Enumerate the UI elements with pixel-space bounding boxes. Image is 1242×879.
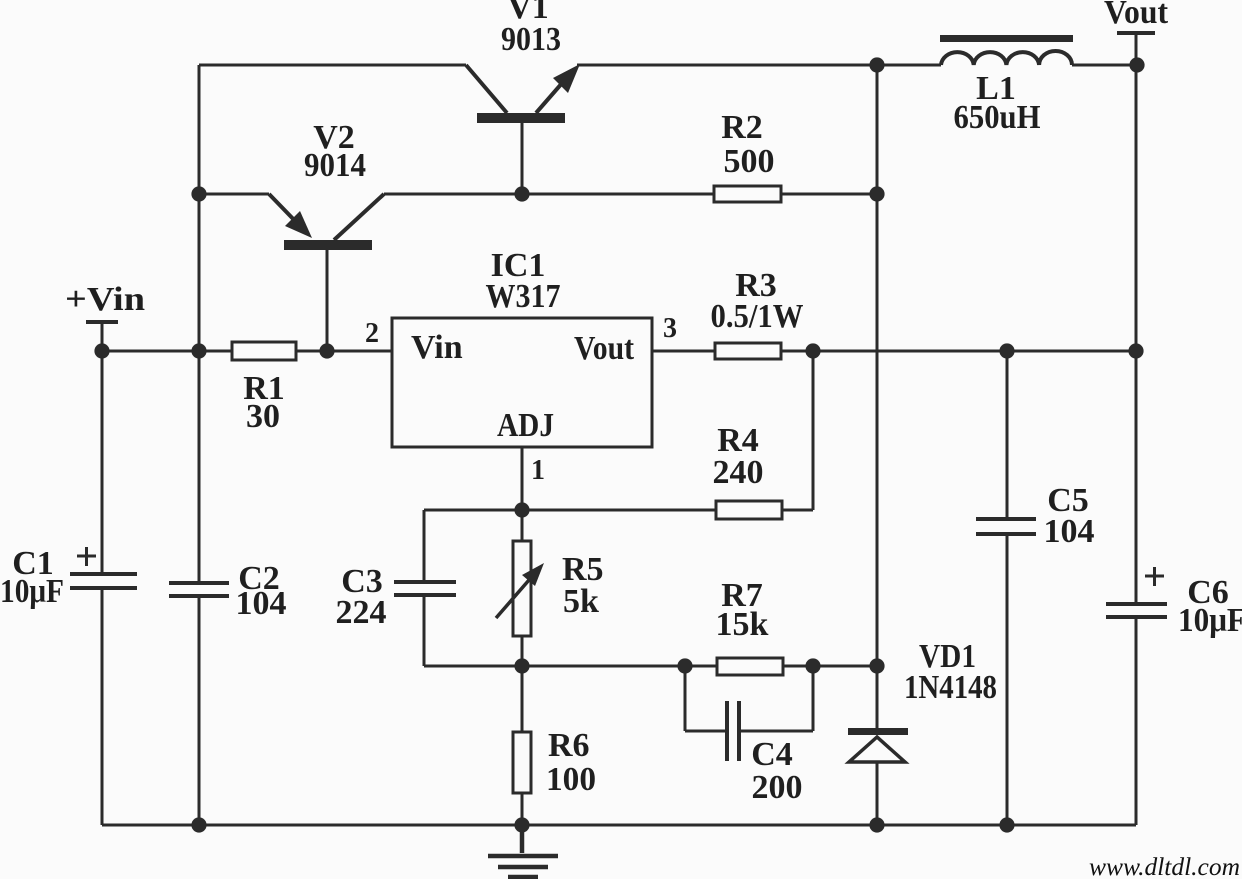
svg-text:ADJ: ADJ [497,407,554,444]
svg-text:www.dltdl.com: www.dltdl.com [1089,854,1240,879]
svg-text:0.5/1W: 0.5/1W [711,298,804,335]
svg-text:2: 2 [365,318,379,349]
svg-text:5k: 5k [563,583,599,620]
svg-text:Vin: Vin [411,329,463,366]
svg-text:240: 240 [713,454,764,491]
svg-text:9014: 9014 [304,147,366,184]
svg-text:3: 3 [663,313,677,344]
svg-text:15k: 15k [716,606,769,643]
svg-text:R6: R6 [548,727,590,764]
svg-text:224: 224 [336,594,387,631]
svg-text:500: 500 [724,143,775,180]
svg-text:R2: R2 [721,109,763,146]
svg-text:100: 100 [546,761,596,798]
svg-text:C4: C4 [751,736,793,773]
svg-text:650uH: 650uH [954,99,1041,136]
svg-text:104: 104 [236,585,287,622]
svg-text:9013: 9013 [501,21,561,58]
svg-text:1N4148: 1N4148 [904,669,997,706]
svg-text:104: 104 [1044,513,1095,550]
svg-text:10μF: 10μF [1178,602,1242,639]
svg-text:200: 200 [752,769,803,806]
svg-text:Vout: Vout [574,330,635,367]
svg-text:+Vin: +Vin [65,281,145,318]
svg-text:10μF: 10μF [0,573,64,610]
svg-text:1: 1 [531,455,545,486]
svg-text:Vout: Vout [1104,0,1169,31]
svg-text:30: 30 [246,398,280,435]
svg-text:W317: W317 [486,278,561,315]
